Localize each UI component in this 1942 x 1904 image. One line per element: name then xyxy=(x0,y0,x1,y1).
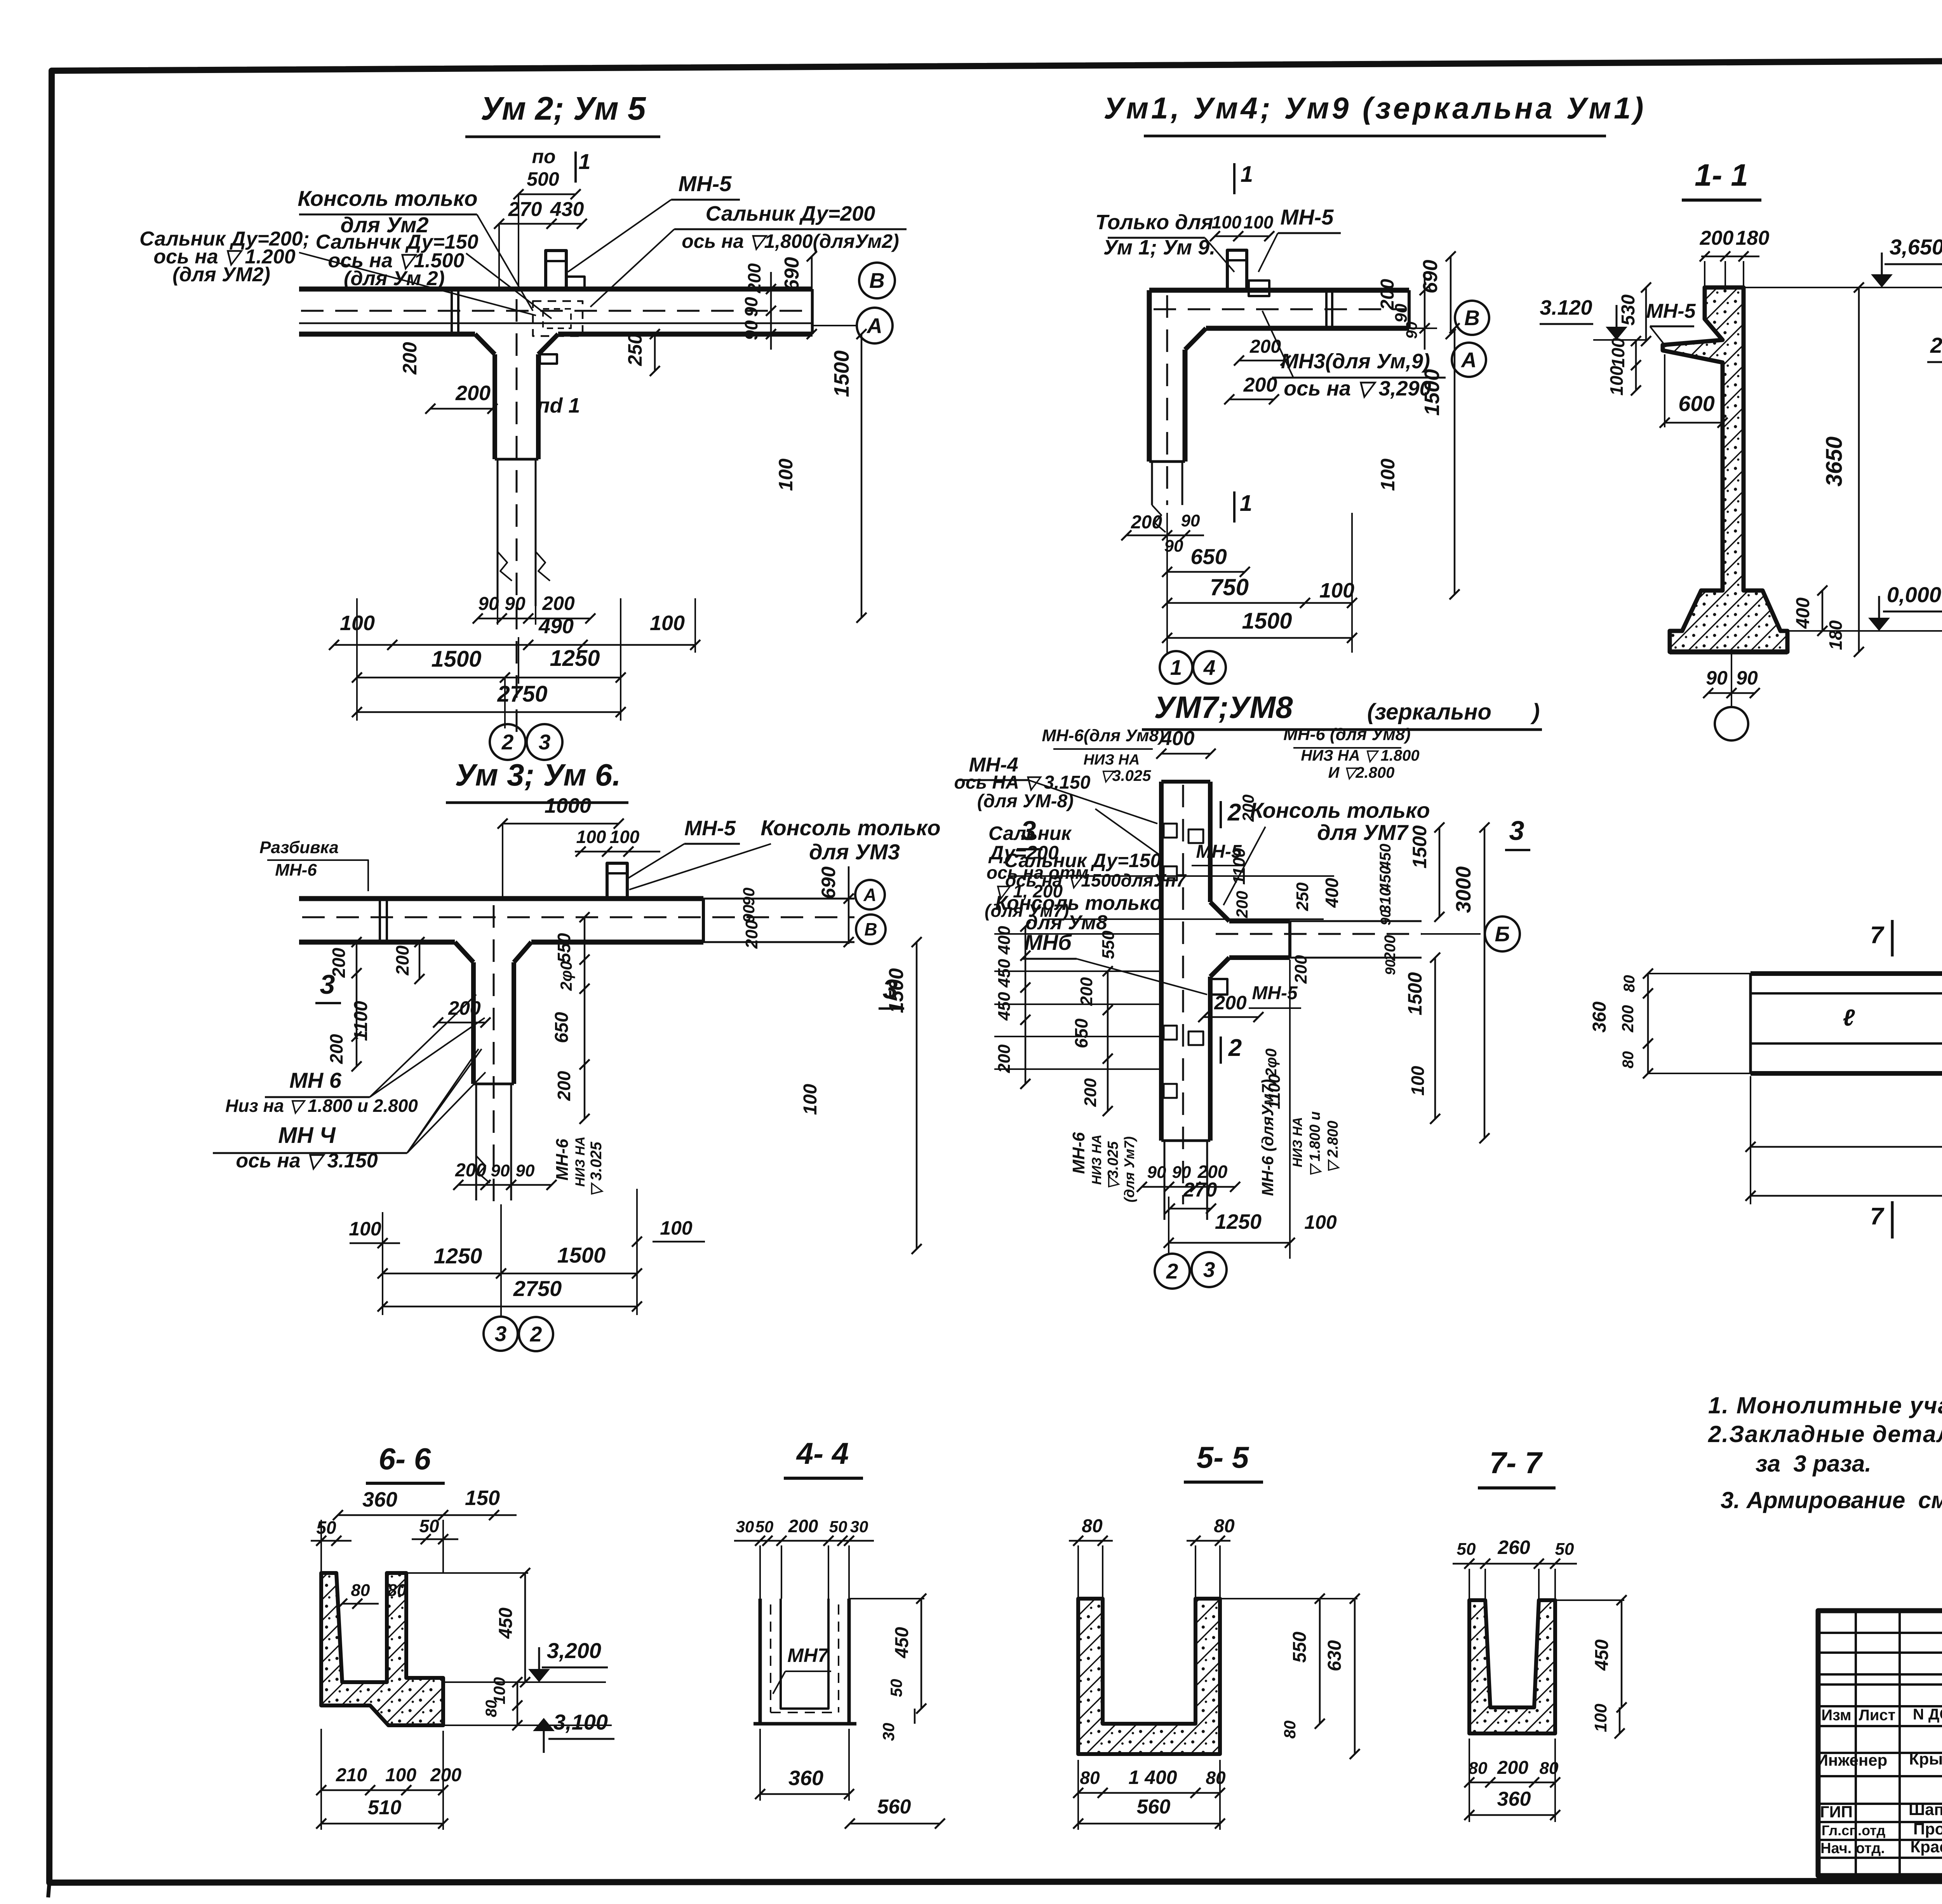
svg-text:30: 30 xyxy=(850,1517,868,1536)
svg-text:1: 1 xyxy=(1240,491,1252,516)
svg-text:400: 400 xyxy=(1793,598,1813,629)
svg-text:3.120: 3.120 xyxy=(1540,296,1592,319)
svg-text:90: 90 xyxy=(491,1161,510,1180)
svg-text:50: 50 xyxy=(755,1517,774,1536)
svg-text:360: 360 xyxy=(788,1766,823,1790)
axis circle B (Um7) xyxy=(1422,933,1481,935)
svg-text:100: 100 xyxy=(650,611,685,635)
svg-text:1500: 1500 xyxy=(1404,972,1426,1015)
svg-text:90: 90 xyxy=(1736,667,1758,689)
svg-text:4: 4 xyxy=(1203,655,1216,679)
svg-text:N ДОКУМ.: N ДОКУМ. xyxy=(1913,1706,1942,1723)
svg-text:НИЗ НА: НИЗ НА xyxy=(1089,1134,1104,1185)
svg-text:200: 200 xyxy=(399,342,421,375)
svg-text:450: 450 xyxy=(892,1627,912,1658)
svg-text:1100: 1100 xyxy=(351,1001,371,1041)
svg-text:90: 90 xyxy=(741,320,761,340)
svg-text:200: 200 xyxy=(1233,891,1251,918)
svg-text:Пронин: Пронин xyxy=(1913,1820,1942,1838)
svg-text:650: 650 xyxy=(1190,544,1227,569)
Um7-Um8 cross walls xyxy=(1159,782,1164,1141)
svg-text:100: 100 xyxy=(775,458,797,491)
svg-text:90: 90 xyxy=(505,594,526,614)
svg-text:1: 1 xyxy=(578,149,590,174)
svg-text:для УМ3: для УМ3 xyxy=(809,840,900,864)
svg-text:2.Закладные детали окрасить эм: 2.Закладные детали окрасить эмалью ЭП-14… xyxy=(1708,1421,1942,1447)
svg-text:1500: 1500 xyxy=(431,646,481,672)
svg-text:250: 250 xyxy=(624,333,646,366)
svg-text:80: 80 xyxy=(1214,1516,1235,1536)
svg-text:2750: 2750 xyxy=(513,1276,562,1301)
embedded plate MN-5 stub xyxy=(546,251,566,289)
svg-text:100: 100 xyxy=(1212,212,1242,232)
svg-text:▽ 3.025: ▽ 3.025 xyxy=(588,1141,605,1197)
svg-text:Изм: Изм xyxy=(1821,1707,1851,1724)
svg-text:200: 200 xyxy=(1249,336,1281,357)
svg-text:90: 90 xyxy=(1147,1163,1166,1182)
svg-text:НИЗ НА: НИЗ НА xyxy=(1290,1117,1305,1167)
svg-text:500: 500 xyxy=(527,168,559,190)
svg-text:100: 100 xyxy=(1408,1066,1428,1096)
svg-text:310: 310 xyxy=(1377,888,1394,914)
svg-text:100: 100 xyxy=(1377,458,1399,491)
svg-text:7- 7: 7- 7 xyxy=(1490,1446,1543,1480)
svg-text:90: 90 xyxy=(516,1161,535,1180)
svg-text:550: 550 xyxy=(1289,1632,1310,1663)
svg-text:1. Монолитные участки замаркир: 1. Монолитные участки замаркированы на л… xyxy=(1708,1392,1942,1418)
svg-text:5- 5: 5- 5 xyxy=(1197,1440,1249,1474)
svg-text:200: 200 xyxy=(1382,935,1399,962)
svg-text:6- 6: 6- 6 xyxy=(379,1442,431,1476)
MN-5 stub Um3 xyxy=(607,863,627,899)
svg-text:210: 210 xyxy=(336,1765,367,1786)
svg-text:1500: 1500 xyxy=(885,968,908,1013)
svg-text:МН-6: МН-6 xyxy=(553,1139,572,1181)
svg-text:7: 7 xyxy=(1870,1203,1885,1230)
svg-text:450: 450 xyxy=(1592,1639,1612,1671)
view Um1-Um4-Um9 wall plan xyxy=(1149,288,1409,293)
svg-text:250: 250 xyxy=(1293,882,1312,911)
svg-text:НИЗ НА: НИЗ НА xyxy=(573,1136,588,1186)
svg-text:ось на ▽ 3.150: ось на ▽ 3.150 xyxy=(236,1150,378,1172)
svg-text:3: 3 xyxy=(1203,1258,1215,1282)
svg-text:80: 80 xyxy=(1082,1516,1103,1536)
svg-text:690: 690 xyxy=(1419,260,1442,294)
svg-text:200: 200 xyxy=(392,945,412,976)
svg-text:200: 200 xyxy=(326,1034,346,1064)
svg-text:Ум 2; Ум 5: Ум 2; Ум 5 xyxy=(480,90,646,127)
svg-text:Б: Б xyxy=(1495,922,1510,946)
svg-text:690: 690 xyxy=(781,257,803,291)
svg-text:В: В xyxy=(864,919,877,939)
svg-text:3. Армирование см. лист КЖ: 3. Армирование см. лист КЖ 9 xyxy=(1721,1487,1942,1513)
svg-text:Консоль только: Консоль только xyxy=(760,815,940,840)
svg-text:Консоль только: Консоль только xyxy=(1250,798,1430,822)
svg-text:Красавин: Красавин xyxy=(1911,1838,1942,1856)
svg-text:100: 100 xyxy=(1319,579,1354,602)
svg-text:80: 80 xyxy=(1620,1051,1637,1069)
svg-text:3: 3 xyxy=(320,969,335,1000)
svg-text:2: 2 xyxy=(1166,1259,1178,1283)
svg-text:3,100: 3,100 xyxy=(553,1710,608,1734)
svg-text:МН-6(для Ум8): МН-6(для Ум8) xyxy=(1042,726,1164,745)
svg-text:180: 180 xyxy=(1825,620,1846,650)
title block xyxy=(1818,1611,1942,1876)
gland dashed box xyxy=(533,301,583,336)
svg-text:для УМ7: для УМ7 xyxy=(1317,820,1409,845)
small plate MN-5 on stem xyxy=(540,354,557,364)
svg-text:100: 100 xyxy=(1608,338,1628,368)
svg-text:100: 100 xyxy=(349,1218,381,1240)
svg-text:И ▽2.800: И ▽2.800 xyxy=(1328,764,1395,781)
svg-text:2750: 2750 xyxy=(497,681,547,707)
svg-text:▽3.025: ▽3.025 xyxy=(1105,1141,1121,1190)
svg-text:ось на ▽1,800(дляУм2): ось на ▽1,800(дляУм2) xyxy=(682,230,899,252)
svg-text:ℓ: ℓ xyxy=(1843,1005,1855,1031)
svg-text:270: 270 xyxy=(1183,1179,1217,1201)
svg-text:▽ 2.800: ▽ 2.800 xyxy=(1325,1121,1341,1173)
svg-text:Крымский: Крымский xyxy=(1909,1750,1942,1768)
svg-text:200: 200 xyxy=(1081,1078,1100,1107)
svg-text:2φ0: 2φ0 xyxy=(1263,1049,1280,1077)
svg-text:МН-6: МН-6 xyxy=(275,861,317,880)
svg-text:90: 90 xyxy=(1706,667,1728,689)
svg-text:МН-6: МН-6 xyxy=(1069,1132,1088,1174)
svg-text:90: 90 xyxy=(1378,910,1394,925)
svg-text:2: 2 xyxy=(1228,1035,1242,1061)
svg-text:МН7: МН7 xyxy=(787,1644,829,1666)
svg-text:30: 30 xyxy=(736,1517,754,1536)
svg-text:3: 3 xyxy=(495,1322,507,1346)
svg-text:1500: 1500 xyxy=(1420,369,1444,416)
svg-text:1500: 1500 xyxy=(1242,608,1292,634)
svg-text:450: 450 xyxy=(995,959,1014,988)
svg-text:100: 100 xyxy=(610,827,640,847)
svg-text:1250: 1250 xyxy=(550,646,600,671)
svg-text:Шапиро: Шапиро xyxy=(1909,1800,1942,1819)
svg-text:690: 690 xyxy=(818,866,839,899)
svg-text:200: 200 xyxy=(744,263,764,293)
section 5-5 shape (hatched) xyxy=(1078,1599,1220,1754)
svg-text:МН3(для Ум,9): МН3(для Ум,9) xyxy=(1281,350,1430,373)
Um1 axis circles xyxy=(1371,327,1437,329)
svg-text:510: 510 xyxy=(368,1796,402,1819)
svg-text:400: 400 xyxy=(995,926,1014,955)
svg-text:МН-5: МН-5 xyxy=(1252,983,1298,1003)
svg-text:600: 600 xyxy=(1678,391,1714,416)
Um2-Um5 axis circles xyxy=(813,325,857,326)
svg-text:630: 630 xyxy=(1324,1640,1345,1671)
svg-text:1250: 1250 xyxy=(434,1244,482,1268)
svg-text:(для УМ2): (для УМ2) xyxy=(172,263,270,286)
svg-text:100: 100 xyxy=(660,1217,693,1239)
svg-text:А: А xyxy=(1460,348,1477,372)
svg-text:200: 200 xyxy=(1131,512,1162,533)
svg-text:750: 750 xyxy=(1210,574,1249,600)
svg-text:90: 90 xyxy=(1181,511,1200,530)
svg-text:80: 80 xyxy=(388,1581,407,1600)
section 7-7 shape (hatched) xyxy=(1469,1600,1555,1733)
LTM1 section marks 7 xyxy=(1891,920,1894,956)
svg-text:360: 360 xyxy=(1589,1002,1610,1033)
svg-text:7: 7 xyxy=(1870,922,1885,949)
svg-text:100: 100 xyxy=(385,1765,416,1786)
svg-text:200: 200 xyxy=(1291,955,1310,984)
svg-text:180: 180 xyxy=(1736,227,1770,249)
svg-text:3,200: 3,200 xyxy=(547,1638,601,1663)
svg-text:80: 80 xyxy=(351,1581,370,1600)
svg-text:50: 50 xyxy=(419,1516,439,1536)
svg-text:А: А xyxy=(863,885,876,905)
svg-text:80: 80 xyxy=(1080,1768,1100,1788)
svg-text:50: 50 xyxy=(829,1517,847,1536)
Um7 corbel plate xyxy=(1210,979,1227,995)
svg-text:100: 100 xyxy=(340,611,375,635)
svg-text:490: 490 xyxy=(538,615,574,638)
section 4-4 thin form U xyxy=(760,1599,849,1724)
svg-text:200: 200 xyxy=(742,920,761,949)
svg-text:1- 1: 1- 1 xyxy=(1695,158,1748,192)
svg-text:Инженер: Инженер xyxy=(1817,1751,1888,1769)
svg-text:МН-5: МН-5 xyxy=(1281,205,1334,229)
svg-text:80: 80 xyxy=(1469,1759,1488,1778)
svg-text:Сальник Ду=150: Сальник Ду=150 xyxy=(1004,850,1161,871)
svg-text:200: 200 xyxy=(455,1160,486,1181)
section 1-1 column (hatched) xyxy=(1663,287,1787,652)
svg-text:90: 90 xyxy=(1392,303,1411,322)
svg-text:Гл.сп.отд: Гл.сп.отд xyxy=(1822,1822,1886,1838)
LTM1 channel plan xyxy=(1751,971,1942,976)
svg-text:▽3.025: ▽3.025 xyxy=(1100,767,1152,784)
svg-text:3000: 3000 xyxy=(1452,866,1475,913)
svg-text:200: 200 xyxy=(1077,977,1096,1006)
Um1 bottom dims xyxy=(1166,513,1168,653)
svg-text:400: 400 xyxy=(1322,878,1342,908)
svg-text:2: 2 xyxy=(1227,799,1241,826)
svg-text:550: 550 xyxy=(554,933,574,963)
svg-text:90: 90 xyxy=(1382,960,1398,975)
svg-text:2: 2 xyxy=(501,730,514,754)
svg-text:200: 200 xyxy=(455,381,491,405)
svg-text:Сальник Ду=200: Сальник Ду=200 xyxy=(706,202,875,225)
svg-text:1500: 1500 xyxy=(557,1243,606,1267)
svg-text:УМ7;УМ8: УМ7;УМ8 xyxy=(1154,690,1293,725)
svg-text:Только для: Только для xyxy=(1095,211,1213,234)
svg-text:Ум1, Ум4; Ум9 (зеркальна Ум1): Ум1, Ум4; Ум9 (зеркальна Ум1) xyxy=(1103,91,1646,125)
svg-text:1100: 1100 xyxy=(1230,848,1249,885)
svg-text:90: 90 xyxy=(740,888,758,906)
svg-text:МН-5: МН-5 xyxy=(1646,300,1696,322)
svg-text:3: 3 xyxy=(1021,815,1036,846)
svg-text:200: 200 xyxy=(554,1071,574,1101)
svg-text:1: 1 xyxy=(1170,655,1182,679)
MN-5 stub xyxy=(1227,250,1247,290)
view Um3-Um6 wall plan xyxy=(299,896,703,901)
svg-text:560: 560 xyxy=(877,1796,911,1818)
svg-text:Низ на ▽ 1.800 и 2.800: Низ на ▽ 1.800 и 2.800 xyxy=(225,1096,418,1116)
svg-text:МН-6 (дляУм7): МН-6 (дляУм7) xyxy=(1258,1079,1277,1196)
svg-text:100: 100 xyxy=(1304,1211,1337,1233)
svg-text:А: А xyxy=(866,314,882,338)
svg-text:1250: 1250 xyxy=(1215,1210,1262,1233)
svg-text:80: 80 xyxy=(483,1700,500,1718)
svg-text:Нач. отд.: Нач. отд. xyxy=(1820,1840,1885,1857)
svg-text:НИЗ НА: НИЗ НА xyxy=(1084,752,1140,768)
svg-text:360: 360 xyxy=(362,1488,397,1511)
svg-text:▽ 1.800 и: ▽ 1.800 и xyxy=(1307,1111,1323,1177)
svg-text:2: 2 xyxy=(530,1322,542,1346)
svg-text:Консоль только: Консоль только xyxy=(298,186,477,211)
svg-text:1 400: 1 400 xyxy=(1128,1766,1177,1788)
svg-text:560: 560 xyxy=(1137,1796,1171,1818)
svg-text:80: 80 xyxy=(1621,975,1638,993)
svg-text:ось на ▽ 3,290: ось на ▽ 3,290 xyxy=(1284,377,1431,400)
svg-text:МН 6: МН 6 xyxy=(289,1068,342,1092)
svg-text:1500: 1500 xyxy=(830,350,853,397)
Um2-Um5 bottom dims xyxy=(356,598,358,721)
svg-text:90: 90 xyxy=(1403,322,1420,339)
svg-text:80: 80 xyxy=(1281,1721,1299,1739)
svg-text:пd 1: пd 1 xyxy=(537,394,580,417)
svg-text:80: 80 xyxy=(1206,1768,1226,1788)
svg-text:(зеркально: (зеркально xyxy=(1367,699,1491,725)
svg-text:50: 50 xyxy=(887,1679,905,1697)
svg-text:4- 4: 4- 4 xyxy=(796,1436,849,1470)
svg-text:3: 3 xyxy=(539,730,551,754)
svg-text:МН Ч: МН Ч xyxy=(278,1123,336,1148)
svg-text:30: 30 xyxy=(879,1723,898,1741)
svg-text:100: 100 xyxy=(1244,212,1274,232)
svg-text:ГИП: ГИП xyxy=(1820,1803,1853,1821)
svg-text:3,650: 3,650 xyxy=(1890,235,1942,259)
svg-text:200: 200 xyxy=(1239,794,1257,822)
svg-text:ось НА ▽ 3.150: ось НА ▽ 3.150 xyxy=(954,772,1091,793)
svg-text:200: 200 xyxy=(788,1516,818,1536)
svg-text:50: 50 xyxy=(1457,1540,1476,1559)
svg-text:450: 450 xyxy=(995,992,1014,1021)
svg-text:1: 1 xyxy=(1241,162,1253,187)
svg-text:200: 200 xyxy=(1214,992,1247,1014)
svg-text:В: В xyxy=(1464,306,1480,330)
svg-text:430: 430 xyxy=(550,198,584,221)
svg-text:50: 50 xyxy=(1555,1540,1574,1559)
svg-text:200: 200 xyxy=(1618,1005,1637,1033)
svg-text:МН-5: МН-5 xyxy=(679,171,732,196)
svg-text:1000: 1000 xyxy=(545,794,591,817)
svg-text:(для УМ-8): (для УМ-8) xyxy=(977,791,1074,812)
svg-text:530: 530 xyxy=(1618,294,1639,326)
svg-text:100: 100 xyxy=(800,1084,821,1115)
svg-text:ось на ▽1500дляУп7: ось на ▽1500дляУп7 xyxy=(1005,870,1187,890)
svg-text:150: 150 xyxy=(465,1486,500,1510)
svg-text:2φ0: 2φ0 xyxy=(557,961,575,991)
svg-text:90: 90 xyxy=(478,594,499,614)
svg-text:200: 200 xyxy=(1243,374,1277,396)
svg-text:360: 360 xyxy=(1497,1788,1531,1810)
svg-text:3: 3 xyxy=(1509,815,1524,846)
svg-text:МН-6 (для Ум8): МН-6 (для Ум8) xyxy=(1283,725,1411,744)
view Um2-Um5 wall plan xyxy=(299,287,813,292)
svg-text:100: 100 xyxy=(1591,1704,1610,1732)
svg-text:100: 100 xyxy=(576,827,606,847)
svg-text:(для Ум7): (для Ум7) xyxy=(1121,1136,1137,1202)
svg-text:270: 270 xyxy=(508,198,542,221)
svg-text:200: 200 xyxy=(1497,1758,1528,1778)
svg-text:100: 100 xyxy=(1606,366,1627,395)
svg-text:450: 450 xyxy=(496,1608,516,1639)
svg-text:Ум 3; Ум 6.: Ум 3; Ум 6. xyxy=(455,758,621,792)
svg-text:1500: 1500 xyxy=(1409,825,1430,868)
svg-text:90: 90 xyxy=(741,297,761,317)
svg-text:0,000: 0,000 xyxy=(1887,582,1941,607)
svg-text:50: 50 xyxy=(316,1517,336,1538)
svg-text:650: 650 xyxy=(1071,1018,1091,1048)
svg-text:по: по xyxy=(532,146,555,167)
svg-text:260: 260 xyxy=(1497,1536,1530,1558)
svg-text:2.650: 2.650 xyxy=(1930,333,1942,357)
svg-text:650: 650 xyxy=(552,1012,572,1043)
svg-text:400: 400 xyxy=(1161,727,1195,750)
svg-text:НИЗ НА ▽ 1.800: НИЗ НА ▽ 1.800 xyxy=(1301,747,1419,764)
Um2-Um5 axis circles 2 3 xyxy=(490,724,526,760)
svg-text:200: 200 xyxy=(448,997,481,1019)
svg-text:Разбивка: Разбивка xyxy=(259,838,339,857)
Um3 axis circles A B xyxy=(703,917,854,918)
svg-text:МН-5: МН-5 xyxy=(684,817,736,840)
svg-text:3650: 3650 xyxy=(1822,436,1847,486)
svg-text:200: 200 xyxy=(542,592,575,614)
svg-text:за 3 раза.: за 3 раза. xyxy=(1756,1451,1871,1477)
svg-text:(для Ум 2): (для Ум 2) xyxy=(344,267,445,290)
svg-text:Ум 1; Ум 9.: Ум 1; Ум 9. xyxy=(1103,236,1215,259)
svg-text:В: В xyxy=(869,268,885,293)
svg-text:Лист: Лист xyxy=(1859,1707,1896,1724)
svg-text:200: 200 xyxy=(1700,227,1734,249)
svg-text:200: 200 xyxy=(430,1765,461,1786)
section 6-6 shape (hatched) xyxy=(321,1573,443,1725)
